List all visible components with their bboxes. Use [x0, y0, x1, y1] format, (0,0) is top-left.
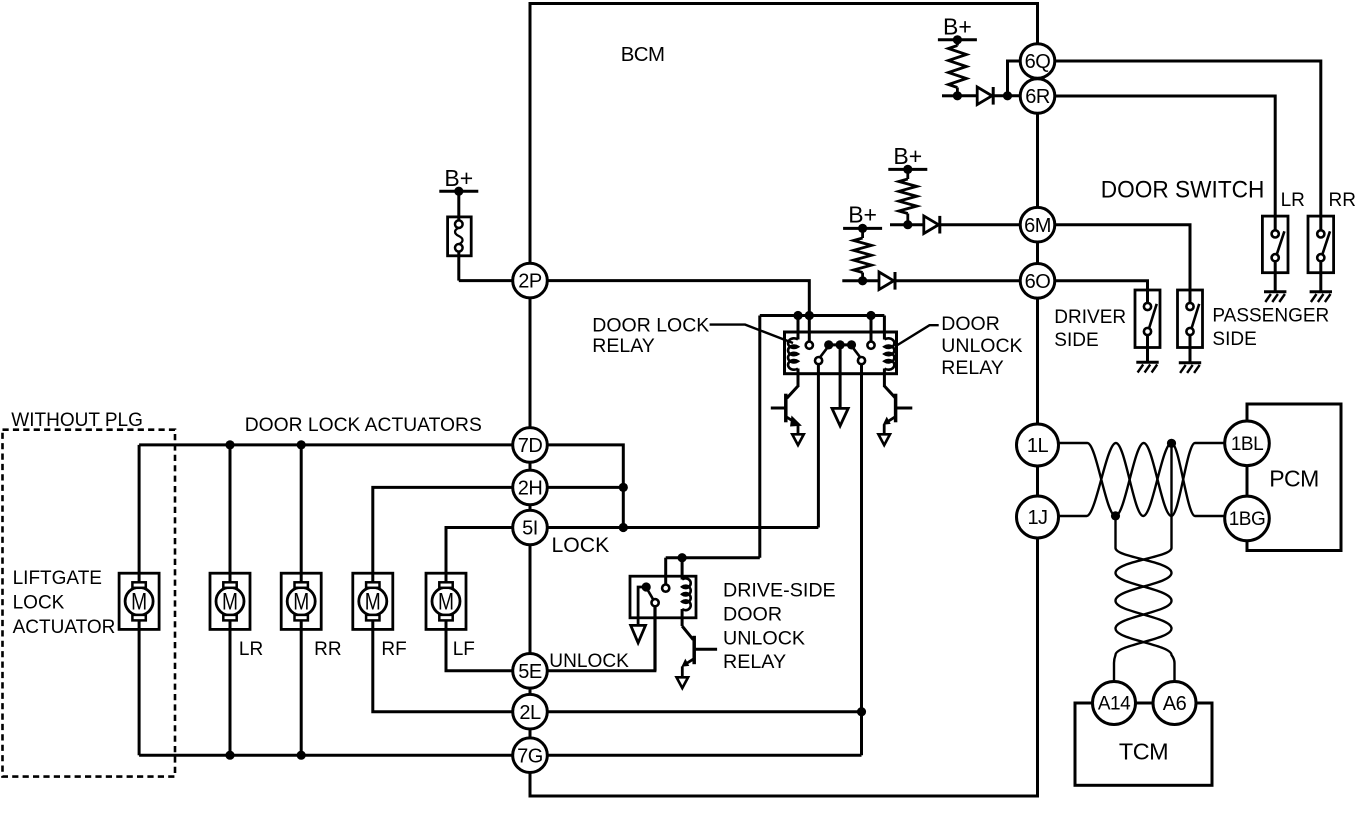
svg-text:DOOR: DOOR [941, 313, 1000, 335]
svg-text:LF: LF [453, 639, 475, 660]
wire D3 to 6O [894, 279, 1020, 282]
wire R3 node to diode D3 [863, 279, 879, 282]
node R3-diode [858, 276, 867, 285]
svg-text:M: M [438, 589, 454, 616]
connector 5I [513, 510, 548, 545]
liftgate lock actuator motor M1 [119, 573, 159, 629]
vertical twisted pair wire B [1116, 548, 1175, 682]
drive-side door unlock relay box [630, 576, 696, 618]
7G internal wire [547, 754, 861, 757]
RR door switch SW2 [1308, 216, 1334, 273]
connector 7G [513, 738, 548, 773]
door unlock relay fixed contact [870, 316, 873, 342]
relay common bar [829, 343, 852, 346]
drive-side relay coil L3 [681, 558, 684, 580]
svg-text:M: M [222, 589, 238, 616]
svg-text:A6: A6 [1163, 693, 1187, 715]
connector 7D [513, 428, 548, 463]
wire 6Q to RR door switch [1055, 61, 1321, 216]
node RR-7G [297, 751, 306, 760]
node RR-7D [297, 440, 306, 449]
node CAN-H branch [1167, 439, 1176, 448]
ground arrow Q2 [878, 434, 890, 445]
ground passenger side [1179, 361, 1201, 364]
transistor Q3 (drive-side unlock driver) [681, 609, 684, 626]
svg-text:LOCK: LOCK [13, 593, 65, 614]
connector 2H [513, 470, 548, 505]
node 5I-tie [619, 523, 628, 532]
svg-text:RELAY: RELAY [723, 651, 786, 673]
svg-text:2P: 2P [518, 271, 542, 293]
svg-text:6M: 6M [1024, 215, 1051, 237]
drive-side relay fixed contact [662, 585, 669, 592]
node bus-contact2 [866, 311, 875, 320]
ground RR [1310, 290, 1332, 293]
connector 1BG [1225, 496, 1270, 541]
svg-text:LOCK: LOCK [552, 534, 610, 557]
svg-text:DOOR: DOOR [723, 603, 782, 625]
wire movable contact to 5E row [654, 606, 657, 671]
LR door lock actuator motor M2 [210, 573, 250, 629]
5I internal wire (LOCK) [547, 526, 818, 529]
wire D2 to 6M [939, 223, 1020, 226]
svg-text:UNLOCK: UNLOCK [723, 627, 805, 649]
RR door lock actuator motor M3 [281, 573, 321, 629]
svg-text:SIDE: SIDE [1054, 330, 1098, 351]
ground LR [1264, 290, 1286, 293]
7D actuator supply row [139, 443, 513, 446]
ground arrow drive-side contact [631, 625, 646, 642]
svg-text:RELAY: RELAY [592, 335, 655, 357]
node R2-diode [903, 220, 912, 229]
wire 6R to LR door switch [1055, 96, 1275, 216]
wire RR switch to ground [1319, 261, 1322, 292]
resistor R3 [861, 228, 864, 238]
RF door lock actuator motor M4 [353, 573, 393, 629]
driver side door switch SW3 [1135, 290, 1160, 348]
wire 6M to passenger side switch [1055, 225, 1190, 290]
5E row [446, 629, 513, 670]
wire LR actuator to 7G [229, 629, 232, 755]
wire R1 node to diode D1 [957, 94, 977, 97]
drive-side relay feed wire [666, 556, 760, 559]
CAN twisted pair wire High [1058, 443, 1227, 516]
node drive-side coil feed [678, 553, 687, 562]
connector 6M [1020, 207, 1055, 242]
diode D2 [924, 216, 939, 234]
ground driver side [1136, 361, 1158, 364]
wire lock contact to 5I row [817, 364, 820, 527]
svg-text:5I: 5I [522, 518, 538, 540]
svg-text:6Q: 6Q [1025, 51, 1051, 73]
wire driver switch to ground [1146, 335, 1149, 362]
passenger side door switch SW4 [1178, 290, 1203, 348]
door lock relay coil L1 [797, 316, 800, 340]
connector 6Q [1020, 44, 1055, 79]
relay common to ground arrow [839, 345, 842, 409]
vertical twisted pair wire A [1114, 548, 1172, 682]
wire B+ to fuse [457, 191, 460, 224]
svg-text:B+: B+ [848, 202, 877, 228]
relay supply bus [760, 314, 885, 317]
svg-text:A14: A14 [1098, 694, 1131, 715]
connector 1BL [1225, 421, 1270, 466]
svg-text:DOOR LOCK ACTUATORS: DOOR LOCK ACTUATORS [245, 415, 482, 436]
svg-text:1J: 1J [1027, 507, 1047, 529]
connector 6R [1020, 79, 1055, 114]
without PLG dashed box [3, 430, 176, 777]
door unlock relay coil L2 [883, 316, 886, 340]
diode D1 [977, 87, 992, 105]
wire LR actuator to 7D [229, 445, 232, 573]
svg-text:M: M [131, 589, 147, 616]
2L internal wire [547, 710, 861, 713]
wire 6O to driver side switch [1055, 281, 1148, 290]
svg-text:DOOR SWITCH: DOOR SWITCH [1101, 176, 1265, 203]
connector 2L [513, 694, 548, 729]
door unlock relay movable contact [853, 347, 861, 357]
svg-text:DOOR LOCK: DOOR LOCK [592, 314, 709, 336]
7G actuator return row [139, 754, 513, 757]
wire CAN branch left down [1114, 516, 1116, 548]
wire RR actuator to 7G [300, 629, 303, 755]
svg-text:BCM: BCM [621, 44, 665, 66]
LF door lock actuator motor M5 [426, 573, 466, 629]
svg-text:6R: 6R [1025, 86, 1050, 108]
svg-text:RR: RR [1329, 190, 1356, 211]
connector A6 [1153, 682, 1196, 725]
door lock relay fixed contact [808, 316, 811, 342]
callout line door unlock relay [898, 325, 939, 345]
wire D1 to 6R [992, 94, 1020, 97]
svg-text:1BG: 1BG [1229, 509, 1266, 530]
svg-text:1BL: 1BL [1231, 434, 1263, 455]
resistor R2 [906, 169, 909, 179]
svg-text:DRIVER: DRIVER [1054, 307, 1126, 328]
svg-text:LR: LR [1281, 190, 1305, 211]
svg-text:LIFTGATE: LIFTGATE [13, 568, 102, 589]
wire passenger switch to ground [1189, 335, 1192, 363]
node 2L junction [857, 707, 866, 716]
PCM box [1247, 404, 1341, 551]
wire 2P to relay bus [547, 281, 809, 316]
svg-text:M: M [293, 589, 309, 616]
node bus-2P [805, 311, 814, 320]
ground arrow Q3 [677, 677, 689, 688]
node 2H-tie [619, 483, 628, 492]
2H internal wire [547, 486, 623, 489]
connector 1L [1017, 424, 1059, 466]
BCM module box [530, 4, 1038, 797]
svg-text:1L: 1L [1027, 435, 1049, 457]
transistor Q2 (unlock driver) [884, 386, 895, 398]
connector 2P [513, 263, 548, 298]
svg-text:7D: 7D [518, 435, 543, 457]
TCM box [1075, 703, 1212, 785]
svg-text:6O: 6O [1025, 271, 1051, 293]
connector A14 [1093, 682, 1136, 725]
svg-text:7G: 7G [517, 745, 543, 767]
2H row [373, 487, 513, 573]
svg-text:LR: LR [239, 639, 263, 660]
wire stub left of R2 node [890, 223, 908, 226]
wire R2 node to diode D2 [908, 223, 924, 226]
svg-text:RELAY: RELAY [941, 357, 1004, 379]
svg-text:PCM: PCM [1269, 466, 1319, 492]
7D internal wire [547, 445, 623, 528]
node 6Q branch [1003, 91, 1012, 100]
svg-text:ACTUATOR: ACTUATOR [13, 617, 116, 638]
CAN twisted pair wire Low [1058, 443, 1227, 516]
svg-text:5E: 5E [518, 661, 542, 683]
svg-text:M: M [365, 589, 381, 616]
wire CAN branch right down [1170, 443, 1172, 548]
node CAN-L branch [1111, 511, 1120, 520]
svg-text:2H: 2H [518, 478, 543, 500]
wire node to 6Q [1008, 61, 1021, 96]
node LR-7D [225, 440, 234, 449]
svg-text:2L: 2L [519, 702, 541, 724]
svg-text:UNLOCK: UNLOCK [941, 335, 1022, 357]
transistor Q1 (lock driver) [787, 386, 798, 398]
5E internal wire (UNLOCK) [547, 606, 655, 671]
node R1-diode [953, 91, 962, 100]
2L row [373, 629, 513, 711]
wire fuse to connector 2P [459, 279, 513, 282]
LR door switch SW1 [1262, 216, 1288, 273]
callout line door lock relay [710, 325, 793, 343]
ground arrow Q1 [792, 434, 804, 445]
door lock relay movable contact [815, 357, 822, 364]
door lock relay / door unlock relay box [785, 332, 897, 374]
resistor R1 [956, 40, 959, 46]
fuse F1 [448, 217, 472, 256]
wire LR switch to ground [1274, 261, 1277, 292]
connector 6O [1020, 264, 1055, 299]
svg-text:RR: RR [314, 639, 341, 660]
wire liftgate actuator to 7D [138, 445, 141, 573]
svg-text:DRIVE-SIDE: DRIVE-SIDE [723, 580, 836, 602]
wire stub left of R1 node [942, 94, 957, 97]
wire bus to drive-side relay feed [758, 316, 761, 558]
connector 1J [1017, 496, 1059, 538]
node bus-coil1 [793, 311, 802, 320]
diode D3 [879, 272, 894, 290]
svg-text:UNLOCK: UNLOCK [549, 651, 629, 672]
wire RR actuator to 7D [300, 445, 303, 573]
svg-text:WITHOUT PLG: WITHOUT PLG [11, 410, 143, 431]
connector 5E [513, 654, 548, 689]
wire stub left of R3 node [842, 279, 862, 282]
svg-text:TCM: TCM [1119, 739, 1168, 765]
wire unlock contact to 2L/7G [860, 364, 863, 755]
wire feed to fixed contact [664, 558, 667, 585]
wire liftgate actuator to 7G [138, 629, 141, 755]
node LR-7G [225, 751, 234, 760]
svg-text:SIDE: SIDE [1212, 329, 1256, 350]
svg-text:RF: RF [381, 639, 406, 660]
svg-text:PASSENGER: PASSENGER [1212, 306, 1329, 327]
5I row [446, 528, 513, 574]
drive-side relay movable contact [642, 582, 651, 591]
